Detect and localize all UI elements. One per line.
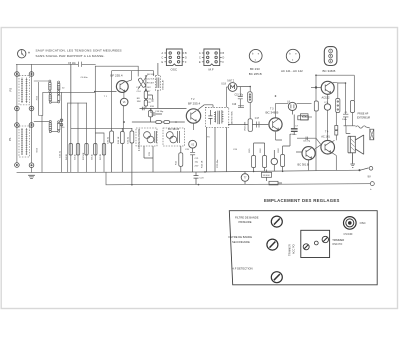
svg-text:BC 348.B: BC 348.B [266, 111, 279, 115]
svg-text:BF 233: BF 233 [250, 67, 260, 71]
svg-text:V1: V1 [123, 101, 127, 104]
svg-text:R7: R7 [148, 91, 152, 93]
svg-text:D: D [185, 56, 187, 59]
svg-text:R13 1K: R13 1K [202, 160, 204, 168]
svg-text:C6 40n: C6 40n [81, 77, 89, 79]
svg-text:SANS SIGNAL PAR RAPPORT A LA M: SANS SIGNAL PAR RAPPORT A LA MASSE. [36, 54, 105, 58]
svg-text:T 4: T 4 [325, 130, 329, 133]
svg-text:C10 4n: C10 4n [60, 150, 62, 158]
svg-text:BC 265.B: BC 265.B [249, 72, 262, 76]
svg-text:R9 4K7: R9 4K7 [147, 83, 155, 85]
svg-text:1K2: 1K2 [147, 87, 152, 89]
svg-text:400mv: 400mv [290, 134, 297, 136]
svg-text:R8: R8 [137, 98, 141, 100]
svg-text:TRIMMER: TRIMMER [289, 244, 292, 256]
svg-text:7000: 7000 [36, 95, 38, 100]
svg-text:OSC PO: OSC PO [332, 242, 342, 246]
svg-text:C30 4n: C30 4n [107, 136, 109, 144]
svg-text:V2: V2 [191, 144, 195, 146]
svg-text:0.18: 0.18 [221, 83, 226, 85]
svg-text:C: C [162, 56, 164, 59]
svg-text:PRISE HP: PRISE HP [358, 113, 369, 115]
svg-text:AC 141 - AC 142: AC 141 - AC 142 [281, 69, 303, 73]
svg-text:C8 47p: C8 47p [303, 140, 311, 142]
svg-text:E: E [162, 61, 164, 64]
svg-text:BF 255.4: BF 255.4 [188, 101, 201, 105]
svg-text:e: e [258, 52, 260, 55]
svg-text:C13: C13 [136, 87, 141, 89]
svg-text:9.6/7.2: 9.6/7.2 [227, 80, 235, 82]
svg-text:e: e [295, 53, 297, 56]
svg-text:R10: R10 [150, 106, 155, 108]
svg-text:16u: 16u [195, 162, 199, 164]
svg-text:FILTRE DE BANDE: FILTRE DE BANDE [235, 216, 259, 220]
svg-text:BC 381.B: BC 381.B [298, 162, 309, 166]
svg-text:C19: C19 [232, 104, 237, 106]
svg-text:FILTRE DE BANDE: FILTRE DE BANDE [229, 235, 253, 239]
svg-text:B: B [223, 52, 225, 55]
svg-text:6000: 6000 [36, 147, 38, 152]
svg-text:b: b [252, 52, 254, 55]
svg-text:E: E [199, 61, 201, 64]
svg-text:DETECTION: DETECTION [232, 111, 234, 124]
svg-text:C21: C21 [195, 158, 200, 160]
svg-text:25V: 25V [195, 165, 199, 167]
svg-text:C15 16u: C15 16u [235, 94, 244, 96]
svg-text:C22 40n: C22 40n [217, 159, 219, 168]
svg-text:R4 1K: R4 1K [66, 153, 68, 160]
svg-text:F: F [223, 61, 225, 64]
svg-text:C: C [199, 56, 201, 59]
svg-text:OSCILLAT: OSCILLAT [162, 79, 165, 90]
svg-text:C31 4n: C31 4n [128, 136, 130, 144]
svg-text:P2: P2 [8, 87, 12, 91]
svg-text:D: D [223, 56, 225, 59]
svg-text:SECONDAIRE: SECONDAIRE [232, 240, 250, 244]
svg-text:C24: C24 [233, 149, 238, 151]
svg-text:120: 120 [147, 102, 151, 104]
svg-text:R6 18K: R6 18K [147, 74, 155, 76]
svg-text:F: F [185, 61, 187, 64]
svg-text:*: * [28, 52, 30, 58]
svg-text:c: c [255, 59, 257, 62]
svg-text:M.F: M.F [209, 67, 214, 71]
svg-text:OSC: OSC [171, 67, 178, 71]
svg-text:EXTERIEUR: EXTERIEUR [357, 117, 370, 119]
svg-text:T6: T6 [207, 137, 210, 139]
svg-text:C9 4n: C9 4n [74, 153, 76, 160]
svg-text:C5 10p: C5 10p [68, 62, 76, 65]
svg-text:C14: C14 [137, 91, 142, 93]
svg-text:R19 1K: R19 1K [118, 136, 120, 144]
svg-text:+: + [370, 187, 372, 191]
svg-text:OSC: OSC [360, 221, 366, 225]
svg-text:CV/CDI: CV/CDI [344, 232, 353, 236]
svg-text:BC 348.B: BC 348.B [323, 69, 336, 73]
svg-text:T7: T7 [244, 178, 247, 180]
svg-text:C16: C16 [147, 99, 152, 101]
svg-text:P1: P1 [8, 137, 12, 141]
svg-text:ACC PO: ACC PO [293, 244, 296, 254]
svg-text:C12 6.8: C12 6.8 [147, 79, 155, 81]
svg-text:50: 50 [62, 127, 65, 129]
svg-text:C17: C17 [255, 118, 260, 120]
svg-text:50: 50 [62, 88, 65, 90]
svg-text:R16: R16 [260, 148, 262, 153]
svg-text:BC 381.B: BC 381.B [168, 127, 179, 131]
svg-text:39K: 39K [137, 101, 141, 103]
svg-text:C8 4n: C8 4n [92, 153, 94, 160]
svg-text:EMPLACEMENT DES REGLAGES: EMPLACEMENT DES REGLAGES [264, 198, 340, 203]
svg-text:B: B [185, 52, 187, 55]
svg-text:100u: 100u [342, 119, 348, 121]
svg-text:C7: C7 [295, 125, 299, 127]
svg-text:VOLUME: VOLUME [244, 121, 246, 131]
svg-text:A: A [199, 52, 201, 55]
svg-text:BF 255.4: BF 255.4 [110, 74, 123, 78]
svg-text:A: A [162, 52, 164, 55]
svg-text:C23: C23 [200, 178, 205, 180]
svg-text:TRIMMER: TRIMMER [332, 238, 344, 242]
svg-text:c: c [292, 59, 294, 62]
svg-text:R18: R18 [278, 148, 280, 153]
svg-text:b: b [289, 53, 291, 56]
svg-text:R2 2K: R2 2K [100, 153, 102, 160]
svg-text:C18 30p: C18 30p [155, 111, 164, 113]
svg-text:C25: C25 [149, 151, 151, 156]
svg-text:F. PASSE DE BANDE: F. PASSE DE BANDE [138, 128, 141, 151]
svg-text:SAUF INDICATION, LES TENSIONS: SAUF INDICATION, LES TENSIONS SONT MESUR… [36, 49, 122, 53]
svg-text:PRIMAIRE: PRIMAIRE [239, 220, 252, 224]
svg-text:1N 400: 1N 400 [263, 175, 271, 177]
svg-text:AC152: AC152 [322, 96, 330, 100]
svg-text:9V: 9V [368, 174, 371, 178]
svg-text:C: C [330, 50, 332, 53]
svg-text:R15: R15 [249, 148, 251, 153]
svg-text:H.F DETECTION: H.F DETECTION [232, 267, 253, 271]
svg-text:C20: C20 [185, 149, 190, 151]
svg-text:R3 56K: R3 56K [83, 152, 85, 160]
svg-text:T 1: T 1 [104, 96, 108, 98]
svg-text:R12: R12 [176, 160, 178, 165]
svg-text:AC 141: AC 141 [321, 135, 330, 139]
